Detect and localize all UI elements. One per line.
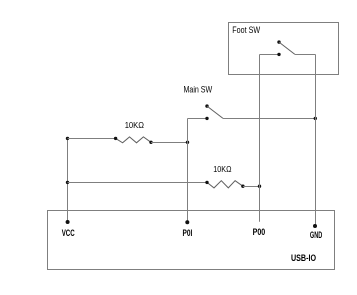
- resistor R1 right terminal dot: [149, 141, 152, 144]
- wire: main switch left lead: [188, 118, 208, 120]
- resistor R2 right terminal dot: [241, 185, 244, 188]
- resistor R1 10KΩ zigzag: [116, 137, 151, 143]
- wire: foot switch left lead (elbow to contact): [260, 54, 280, 56]
- wire: GND vertical from foot switch to GND terminal: [315, 55, 317, 227]
- svg-text:P00: P00: [253, 227, 266, 237]
- wire: row 1 right segment to P0I vertical: [151, 142, 188, 144]
- resistor R2 left terminal dot: [205, 181, 208, 184]
- junction: main switch output on GND vertical: [314, 117, 317, 120]
- svg-text:10KΩ: 10KΩ: [213, 164, 231, 174]
- svg-text:GND: GND: [310, 230, 323, 240]
- wire: P0I vertical: [187, 119, 189, 223]
- svg-text:Main SW: Main SW: [184, 85, 213, 95]
- svg-text:P0I: P0I: [183, 228, 193, 238]
- wire: P00 vertical from foot switch to P00 terminal: [259, 55, 261, 222]
- resistor R2 10KΩ zigzag: [207, 181, 243, 188]
- terminal VCC dot: [66, 220, 70, 224]
- junction: VCC at row 2: [66, 181, 69, 184]
- junction: VCC top of row 1: [66, 137, 69, 140]
- svg-text:VCC: VCC: [62, 228, 75, 238]
- foot switch SW2 open contact dot: [277, 40, 280, 43]
- svg-text:Foot SW: Foot SW: [232, 25, 260, 35]
- wire: foot switch right lead: [295, 54, 316, 56]
- foot switch SW2 lever: [279, 42, 295, 54]
- svg-text:USB-IO: USB-IO: [291, 253, 316, 263]
- terminal GND dot: [313, 224, 317, 228]
- main switch SW1 open contact dot: [205, 104, 208, 107]
- wire: row 1 left segment: [68, 138, 116, 140]
- svg-text:10KΩ: 10KΩ: [125, 120, 144, 130]
- wire: row 2 left segment: [68, 182, 208, 184]
- resistor R1 left terminal dot: [114, 137, 117, 140]
- USB-IO enclosure box: [48, 211, 335, 270]
- terminal P0I dot: [185, 220, 189, 224]
- wire: row 2 right segment to P00 vertical: [243, 186, 260, 188]
- junction: row 2 on P00 vertical: [258, 185, 261, 188]
- main switch SW1 pole contact dot: [205, 117, 208, 120]
- wire: VCC vertical: [67, 139, 69, 223]
- wire: main switch output to GND net: [223, 118, 316, 120]
- foot switch SW2 pole contact dot: [277, 53, 280, 56]
- Foot SW enclosure box: [229, 23, 339, 75]
- main switch SW1 lever: [207, 106, 223, 118]
- junction: row 1 on P0I vertical: [186, 141, 189, 144]
